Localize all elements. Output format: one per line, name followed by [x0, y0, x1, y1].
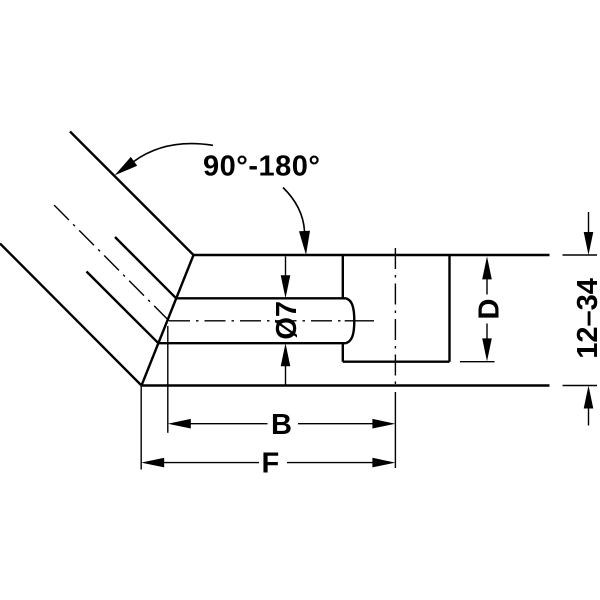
svg-text:90°-180°: 90°-180°	[203, 151, 321, 183]
svg-text:Ø7: Ø7	[271, 301, 303, 340]
svg-text:F: F	[262, 448, 280, 480]
svg-text:D: D	[474, 299, 506, 320]
svg-text:12–34: 12–34	[572, 278, 600, 359]
svg-text:B: B	[271, 409, 292, 441]
